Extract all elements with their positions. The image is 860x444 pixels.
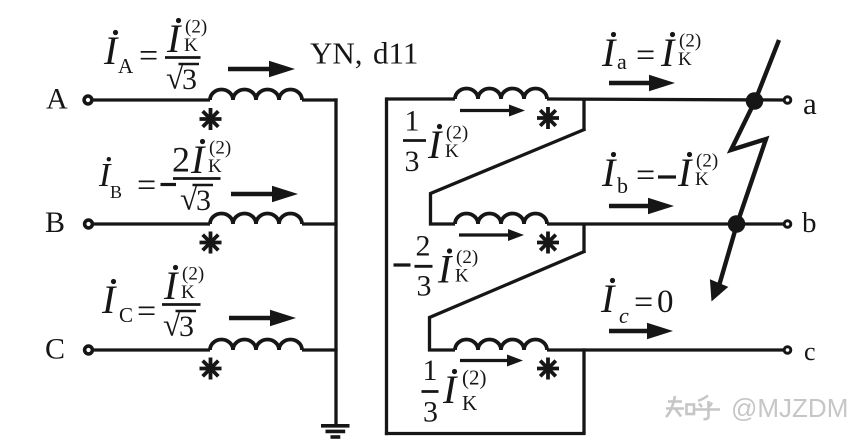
wire W_b to terminal b (547, 222, 783, 225)
terminal b (784, 221, 791, 228)
wire W_a drop (582, 99, 585, 131)
svg-text:K: K (445, 141, 459, 162)
terminal c (784, 347, 791, 354)
node label c (804, 337, 816, 366)
wire delta bus to winding a (387, 97, 456, 100)
wire W_C to neutral bus (302, 348, 338, 351)
svg-text:a: a (617, 49, 627, 74)
wire C terminal to winding (94, 348, 210, 351)
wire B terminal to winding (94, 222, 210, 225)
svg-text:=: = (636, 157, 655, 194)
svg-text:3: 3 (179, 310, 194, 343)
svg-text:2: 2 (416, 230, 431, 263)
node label b (802, 207, 817, 239)
value label I_A = I_K(2)/sqrt3 (103, 16, 207, 96)
short-circuit fault bolt (710, 40, 779, 302)
value label I_B = -2I_K(2)/sqrt3 (98, 137, 231, 217)
wire W_b drop (582, 224, 585, 253)
svg-text:=: = (137, 293, 156, 330)
terminal C (85, 346, 93, 354)
wire diagonal W_a to W_b (431, 129, 586, 224)
wire W_c to delta bottom (582, 348, 585, 433)
polarity asterisk W_B (200, 232, 222, 254)
winding W_a (delta secondary) (455, 89, 547, 100)
value label I_a = I_K(2) (601, 30, 701, 75)
watermark zhihu @MJZDM (666, 393, 848, 423)
ground symbol (321, 426, 350, 437)
terminal A (84, 96, 92, 104)
delta left bus wire (385, 97, 388, 435)
value label 1/3 I_K(2) (bottom) (422, 354, 487, 429)
winding current arrow 1/3 I_K (460, 105, 525, 117)
svg-text:C: C (45, 333, 65, 366)
winding W_c (delta secondary) (455, 340, 547, 351)
svg-text:b: b (802, 207, 817, 239)
svg-text:B: B (110, 182, 122, 202)
svg-text:3: 3 (405, 145, 420, 178)
phase label B (45, 206, 65, 239)
svg-text:3: 3 (196, 184, 211, 217)
svg-text:A: A (46, 83, 68, 116)
winding W_B (star primary) (210, 214, 302, 225)
polarity asterisk W_b (537, 232, 559, 254)
current arrow I_c (609, 323, 673, 340)
value label -2/3 I_K(2) (middle) (394, 230, 479, 303)
current arrow I_B (231, 186, 298, 203)
wire diagonal W_b to W_c (430, 251, 586, 350)
svg-text:c: c (804, 337, 816, 366)
wire W_c to terminal c (547, 348, 783, 351)
phase label A (46, 83, 68, 116)
wire W_A to neutral bus (302, 98, 338, 101)
node label a (803, 86, 817, 121)
winding current arrow 1/3 I_K (c) (460, 355, 523, 367)
value label 1/3 I_K(2) (top) (403, 105, 468, 179)
svg-text:d11: d11 (373, 36, 418, 71)
svg-text:K: K (462, 391, 477, 415)
svg-text:A: A (118, 54, 134, 78)
svg-text:K: K (455, 266, 469, 287)
terminal B (85, 220, 93, 228)
polarity asterisk W_C (200, 358, 222, 380)
svg-text:1: 1 (405, 105, 420, 138)
neutral bus wire (334, 98, 337, 424)
svg-text:=: = (137, 167, 156, 204)
svg-text:@MJZDM: @MJZDM (731, 393, 848, 423)
svg-text:2: 2 (172, 140, 190, 180)
svg-text:1: 1 (423, 354, 438, 387)
wire A terminal to winding (93, 98, 210, 101)
svg-text:b: b (617, 173, 628, 198)
phase label C (45, 333, 65, 366)
delta bottom wire (385, 432, 586, 435)
svg-text:c: c (619, 303, 629, 328)
winding W_C (star primary) (210, 340, 302, 351)
value label I_b = -I_K(2) (601, 150, 718, 198)
current arrow I_a (609, 75, 675, 92)
svg-text:K: K (208, 156, 222, 177)
svg-text:=: = (634, 284, 653, 321)
svg-text:3: 3 (423, 396, 438, 429)
current arrow I_b (609, 198, 674, 215)
svg-text:K: K (184, 35, 198, 56)
winding W_b (delta secondary) (455, 214, 547, 225)
svg-text:K: K (678, 49, 692, 70)
value label I_c = 0 (600, 276, 674, 328)
junction node a (746, 92, 764, 110)
svg-text:=: = (139, 38, 158, 75)
svg-text:3: 3 (417, 270, 432, 303)
winding W_A (star primary) (210, 90, 302, 101)
polarity asterisk W_a (537, 107, 559, 129)
text YN, d11 (310, 36, 418, 71)
wire W_a to terminal a (547, 99, 783, 100)
svg-text:0: 0 (657, 284, 674, 320)
svg-text:YN,: YN, (310, 36, 363, 71)
svg-text:3: 3 (182, 63, 197, 96)
current arrow I_A (228, 61, 295, 78)
winding current arrow -2/3 I_K (459, 229, 524, 241)
svg-text:=: = (636, 37, 655, 74)
wire W_B to neutral bus (302, 222, 338, 225)
svg-text:K: K (181, 282, 195, 303)
current arrow I_C (229, 310, 296, 327)
svg-text:C: C (119, 303, 133, 327)
value label I_C = I_K(2)/sqrt3 (101, 263, 204, 343)
svg-text:K: K (695, 169, 709, 190)
polarity asterisk W_c (537, 358, 559, 380)
svg-text:(2): (2) (462, 366, 487, 390)
polarity asterisk W_A (200, 108, 222, 130)
junction node b (728, 215, 746, 233)
svg-text:a: a (803, 86, 817, 121)
svg-text:B: B (45, 206, 65, 239)
terminal a (784, 97, 791, 104)
